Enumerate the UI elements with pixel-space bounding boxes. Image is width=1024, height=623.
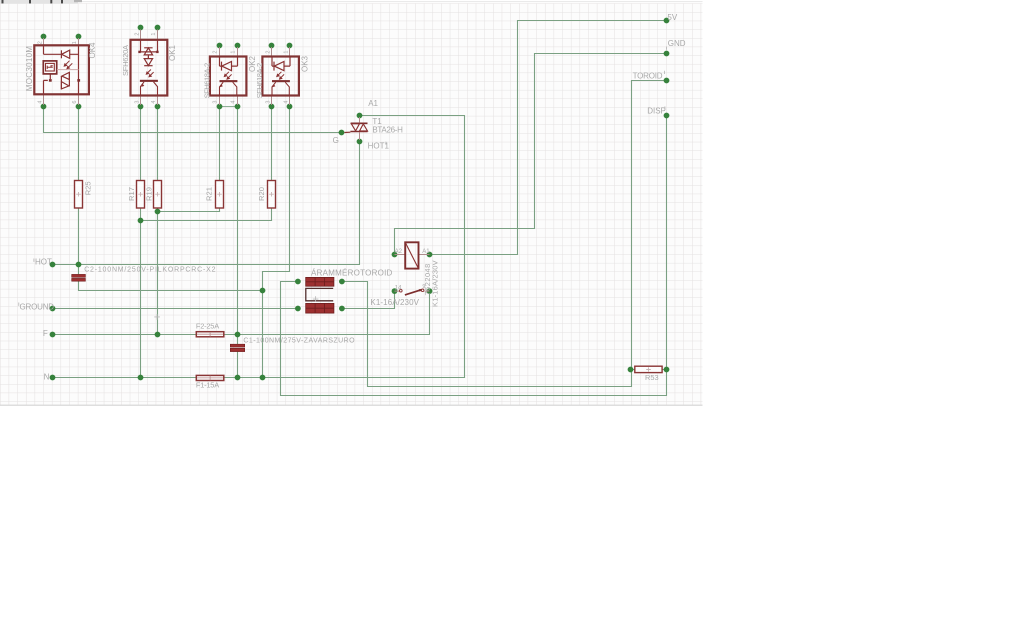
svg-text:3: 3 <box>134 101 140 104</box>
svg-text:A1: A1 <box>422 249 430 255</box>
svg-text:2: 2 <box>134 33 140 36</box>
svg-text:2: 2 <box>265 51 271 54</box>
svg-text:3: 3 <box>213 101 219 104</box>
svg-text:1: 1 <box>72 41 78 44</box>
svg-text:2: 2 <box>38 41 44 44</box>
svg-text:1: 1 <box>151 33 157 36</box>
svg-text:OK1: OK1 <box>168 44 177 61</box>
svg-text:TOROID: TOROID <box>633 72 663 81</box>
svg-text:ÁRAMMÉROTOROID: ÁRAMMÉROTOROID <box>311 268 393 277</box>
svg-text:SFH618A-2: SFH618A-2 <box>202 63 211 98</box>
svg-text:R20: R20 <box>257 187 266 201</box>
svg-text:K1-16A/230V: K1-16A/230V <box>430 260 439 307</box>
svg-text:C2-100NM/250V-PILKORPCRC-X2: C2-100NM/250V-PILKORPCRC-X2 <box>84 267 216 274</box>
svg-text:14: 14 <box>395 285 402 291</box>
svg-text:3: 3 <box>265 101 271 104</box>
svg-text:K1-16A/230V: K1-16A/230V <box>370 298 419 307</box>
svg-text:G: G <box>333 136 339 145</box>
svg-text:1: 1 <box>231 51 237 54</box>
svg-text:BTA26-H: BTA26-H <box>372 126 403 135</box>
svg-text:5V: 5V <box>667 13 677 22</box>
svg-text:MOC3010M: MOC3010M <box>25 46 34 92</box>
svg-text:OK3: OK3 <box>301 55 310 72</box>
svg-text:4: 4 <box>151 101 157 104</box>
svg-text:SFH618A-2: SFH618A-2 <box>255 63 264 98</box>
svg-text:F2-25A: F2-25A <box>196 321 219 330</box>
svg-text:OK4: OK4 <box>88 42 97 59</box>
svg-text:SFH620A: SFH620A <box>121 44 130 76</box>
svg-text:N: N <box>44 373 50 382</box>
svg-text:GND: GND <box>668 39 686 48</box>
svg-text:F1-15A: F1-15A <box>196 380 219 389</box>
svg-text:A1: A1 <box>368 99 378 108</box>
svg-text:DISP: DISP <box>647 106 666 115</box>
svg-text:6: 6 <box>72 101 78 104</box>
svg-text:R25: R25 <box>84 181 93 195</box>
svg-text:HOT: HOT <box>35 258 52 267</box>
svg-text:2: 2 <box>213 51 219 54</box>
svg-text:4: 4 <box>231 101 237 104</box>
svg-text:R21: R21 <box>205 187 214 201</box>
svg-text:A2: A2 <box>395 249 403 255</box>
svg-text:R17: R17 <box>127 187 136 201</box>
svg-text:1: 1 <box>283 51 289 54</box>
svg-text:C1-100NM/275V-ZAVARSZURO: C1-100NM/275V-ZAVARSZURO <box>243 337 355 344</box>
svg-text:4: 4 <box>38 101 44 104</box>
svg-text:4: 4 <box>283 101 289 104</box>
svg-text:GROUND: GROUND <box>20 302 55 311</box>
svg-text:R19: R19 <box>145 187 154 201</box>
svg-text:F: F <box>43 329 48 338</box>
svg-text:R53: R53 <box>645 373 659 382</box>
